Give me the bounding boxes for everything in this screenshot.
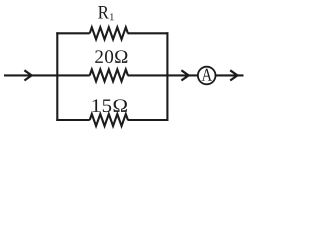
wire: left input lead: [4, 74, 57, 76]
left bus vertical wire: [56, 32, 58, 121]
arrowhead: right output arrow: [230, 70, 237, 80]
wire: bottom branch right stub: [128, 119, 169, 121]
wire: right bus to ammeter: [167, 74, 198, 76]
wire: top branch left stub: [56, 32, 89, 34]
ammeter U1 circle: [198, 67, 216, 85]
arrowhead: arrow before ammeter: [181, 70, 188, 80]
wire: middle branch right stub: [128, 74, 168, 76]
label 20 ohm: [95, 50, 127, 63]
wire: top branch right stub: [128, 32, 169, 34]
right bus vertical wire: [166, 32, 168, 121]
label 15 ohm: [93, 99, 127, 112]
arrowhead: left input current arrow: [24, 70, 31, 80]
wire: bottom branch left stub: [56, 119, 89, 121]
label R1: [98, 6, 114, 20]
resistor 20ohm zigzag: [90, 69, 128, 81]
wire: middle branch left stub: [57, 74, 89, 76]
wire: ammeter to right output: [216, 74, 244, 76]
ammeter letter A: [202, 69, 212, 81]
resistor R1 zigzag: [90, 27, 128, 39]
resistor 15ohm zigzag: [90, 114, 128, 126]
